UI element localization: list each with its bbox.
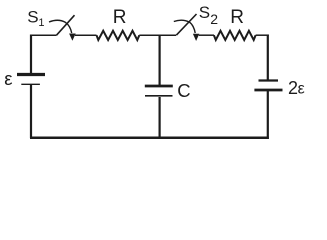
svg-text:R: R [113, 7, 127, 28]
svg-text:S: S [27, 8, 38, 27]
svg-text:ε: ε [4, 68, 12, 89]
svg-text:1: 1 [38, 17, 44, 29]
svg-text:S: S [199, 3, 210, 22]
svg-text:2: 2 [288, 78, 298, 98]
svg-text:ε: ε [298, 81, 305, 98]
svg-text:C: C [177, 80, 190, 101]
svg-text:R: R [230, 7, 244, 28]
svg-text:2: 2 [210, 11, 218, 27]
